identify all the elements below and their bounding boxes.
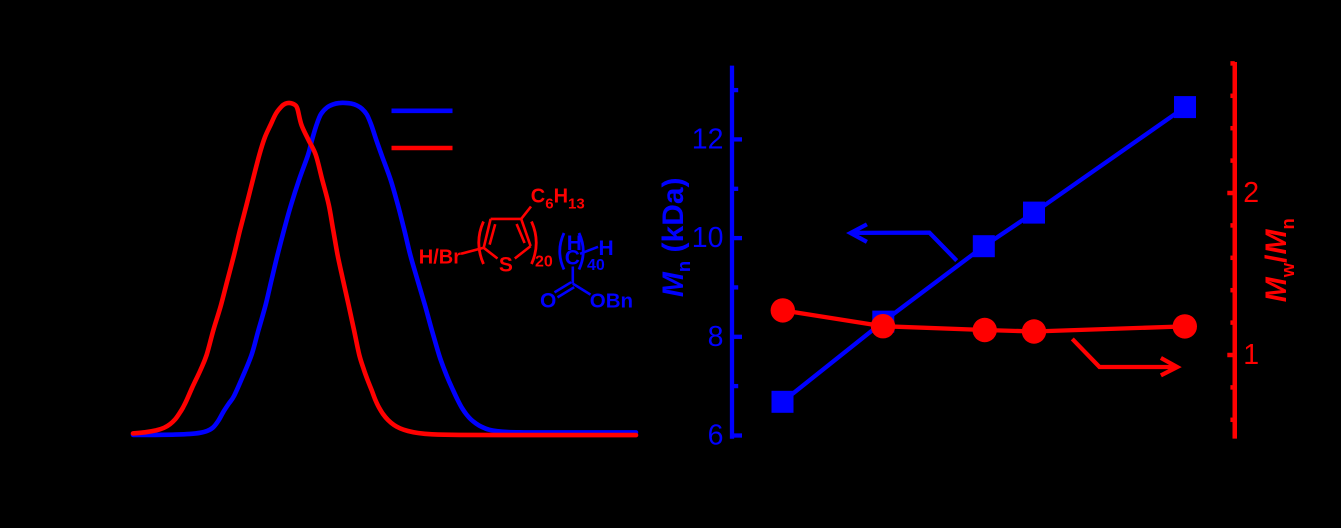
svg-text:C: C: [565, 247, 580, 270]
GPC trace blue curve: [133, 103, 636, 435]
bond H/Br to ring: [461, 248, 484, 254]
svg-text:Mw/Mn: Mw/Mn: [1260, 218, 1298, 302]
blue major ticks: [732, 139, 742, 435]
svg-text:O: O: [540, 289, 556, 312]
red circle markers: [771, 298, 1197, 344]
acrylate right parenthesis (blue): [579, 233, 583, 270]
bond ring to hexyl chain: [521, 207, 531, 219]
thiophene ring bonds: [484, 219, 531, 259]
repeat-unit right parenthesis (red): [532, 222, 537, 265]
acrylate left parenthesis (blue): [560, 233, 564, 270]
blue tick labels: [692, 123, 724, 451]
bond C down to ester carbon: [571, 267, 574, 284]
blue square markers: [772, 96, 1197, 413]
red minor ticks: [1230, 63, 1234, 419]
red y-axis line: [1233, 62, 1238, 439]
blue annotation arrow: [851, 224, 957, 260]
svg-text:8: 8: [708, 321, 724, 353]
svg-text:12: 12: [692, 123, 724, 155]
ester C=O double bond: [555, 282, 572, 292]
blue y-axis line: [730, 66, 734, 439]
blue minor ticks: [732, 90, 738, 386]
svg-text:6: 6: [708, 420, 724, 452]
svg-text:OBn: OBn: [590, 289, 633, 312]
svg-text:10: 10: [692, 222, 724, 254]
svg-text:20: 20: [535, 254, 553, 271]
svg-text:H: H: [599, 237, 614, 260]
red tick labels: [1243, 177, 1259, 371]
red annotation arrow: [1072, 339, 1177, 376]
svg-text:H/Br: H/Br: [419, 246, 461, 268]
repeat-unit left parenthesis (red): [479, 222, 484, 265]
blue Mn data line: [783, 107, 1186, 402]
red Mw/Mn data line: [783, 310, 1185, 331]
svg-text:S: S: [499, 254, 513, 277]
red major ticks: [1227, 193, 1234, 355]
legend red line: [392, 146, 453, 151]
svg-text:2: 2: [1243, 177, 1259, 209]
svg-text:Mn (kDa): Mn (kDa): [657, 177, 694, 297]
GPC trace red curve: [133, 103, 636, 435]
legend blue line: [392, 109, 453, 114]
ester C-O single bond: [573, 284, 591, 295]
bond C to end H: [580, 247, 598, 254]
svg-text:1: 1: [1243, 339, 1259, 371]
